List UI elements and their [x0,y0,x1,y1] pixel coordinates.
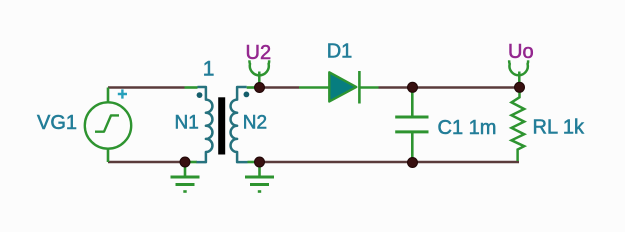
svg-text:N2: N2 [243,113,267,134]
resistor RL [512,93,525,162]
voltage source VG1 [85,88,131,163]
ground 1 under N1 [171,164,200,192]
transformer N2 polarity dot [244,92,250,98]
transformer winding N1 [197,87,213,162]
svg-text:C1 1m: C1 1m [438,117,497,139]
wire bottom from VG1 to ground junction [108,161,185,164]
junction dot node U2 [255,83,265,93]
wire bottom from capacitor C1 bottom junction to resistor RL bottom [416,161,519,164]
wire from capacitor C1 top junction to node Uo [416,86,515,89]
junction dot capacitor bottom [408,158,418,168]
transformer N1 polarity dot [197,92,203,98]
label N2 [243,113,267,134]
junction dot ground 1 [180,157,190,167]
svg-text:U2: U2 [246,42,272,64]
transformer winding N2 [231,87,248,162]
label C1 1m [438,117,497,139]
wire top from VG1 to transformer N1 [108,86,185,89]
transformer winding N1 lead green segment top [185,86,198,89]
junction dot node Uo [515,82,525,92]
transformer winding N2 lead green segment top [247,86,256,89]
svg-text:RL 1k: RL 1k [533,117,586,139]
svg-text:N1: N1 [175,113,199,134]
label ratio 1 of transformer [203,58,215,81]
svg-text:VG1: VG1 [37,112,77,134]
junction dot ground 2 [255,157,265,167]
plus sign of VG1 polarity [118,89,127,98]
label Uo [508,41,534,63]
node Uo marker [509,60,528,84]
transformer core [218,97,225,154]
label D1 [327,41,353,63]
label N1 [175,113,199,134]
node U2 marker [249,60,269,84]
transformer winding N1 lead green segment bottom [190,161,198,164]
wire bottom from N2 ground junction to capacitor C1 bottom junction [263,161,409,164]
transformer winding N2 lead green segment bottom [248,161,257,164]
diode D1 [299,71,379,104]
wire top from node U2 to diode D1 anode [262,86,299,89]
label RL 1k [533,117,586,139]
junction dot capacitor top [408,82,418,92]
svg-text:D1: D1 [327,41,353,63]
capacitor C1 [395,90,428,160]
wire from diode D1 cathode to capacitor C1 top junction [379,86,409,89]
ground 2 under N2 [245,164,274,192]
svg-text:Uo: Uo [508,41,534,63]
svg-text:1: 1 [203,58,215,81]
label U2 [246,42,272,64]
label VG1 [37,112,77,134]
